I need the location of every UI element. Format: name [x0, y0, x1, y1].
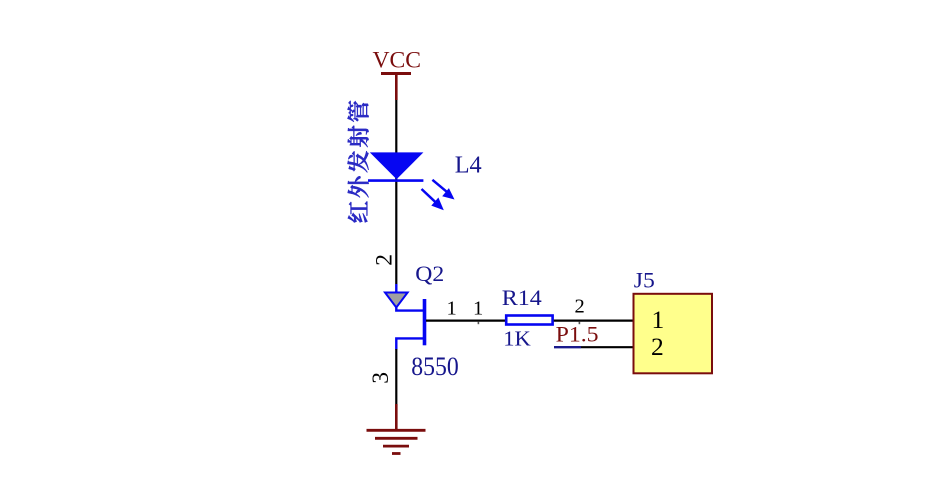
- svg-text:2: 2: [371, 254, 397, 266]
- LED L4 anode triangle: [370, 152, 424, 179]
- resistor R14 body: [506, 316, 552, 325]
- wire Q2 collector to ground: [395, 349, 397, 405]
- resistor R14 designator: [502, 285, 542, 310]
- svg-text:L4: L4: [455, 152, 482, 179]
- svg-text:1: 1: [652, 305, 665, 334]
- connector J5 designator: [634, 268, 655, 293]
- resistor R14 value 1K: [503, 326, 531, 350]
- svg-text:8550: 8550: [411, 351, 459, 381]
- LED L4 cathode bar: [368, 179, 423, 182]
- junction tick R14 pin2: [579, 322, 581, 325]
- transistor Q2 base bar: [423, 299, 427, 345]
- svg-text:3: 3: [368, 372, 394, 384]
- junction tick R14 pin1: [478, 322, 480, 325]
- svg-text:VCC: VCC: [373, 48, 422, 73]
- svg-text:J5: J5: [634, 268, 655, 293]
- wire Q2 base to resistor R14: [426, 320, 506, 322]
- ground symbol bar 2: [375, 437, 418, 440]
- power VCC bar symbol: [381, 72, 411, 75]
- pin number 1 of Q2 base: [447, 298, 457, 320]
- label 红外发射管 (infrared emitter tube, rotated): [348, 101, 369, 223]
- wire P1.5 to connector J5 pin 2: [581, 346, 634, 348]
- pin number 3 of Q2 (rotated): [368, 372, 394, 384]
- transistor Q2 emitter lead: [385, 284, 425, 311]
- pin number 2 of R14: [575, 296, 585, 318]
- transistor Q2 collector lead: [396, 338, 424, 349]
- LED emission arrow lower: [422, 189, 444, 210]
- svg-text:2: 2: [575, 296, 585, 318]
- label L4 (LED designator): [455, 152, 482, 179]
- transistor Q2 designator: [415, 261, 444, 286]
- ground symbol bar 4: [392, 452, 401, 455]
- svg-text:1: 1: [473, 298, 483, 320]
- wire VCC to Q2 emitter (through LED): [395, 100, 397, 284]
- svg-text:Q2: Q2: [415, 261, 444, 286]
- svg-text:P1.5: P1.5: [556, 322, 599, 347]
- power VCC stem: [395, 74, 398, 101]
- ground symbol bar 3: [383, 445, 409, 448]
- wire R14 to connector J5 pin 1: [554, 320, 634, 322]
- pin number 1 inside J5: [652, 305, 665, 334]
- pin number 2 inside J5: [651, 332, 664, 361]
- transistor Q2 value 8550: [411, 351, 459, 381]
- net wire segment (blue) under P1.5: [554, 346, 581, 348]
- ground symbol stem: [395, 404, 398, 430]
- connector J5 body: [634, 294, 713, 374]
- LED emission arrow upper: [432, 180, 454, 200]
- svg-text:R14: R14: [502, 285, 542, 310]
- power VCC label: [373, 48, 422, 73]
- svg-text:1K: 1K: [503, 326, 531, 350]
- svg-text:1: 1: [447, 298, 457, 320]
- pin number 1 of R14: [473, 298, 483, 320]
- ground symbol bar 1: [367, 429, 426, 432]
- net label P1.5: [556, 322, 599, 347]
- svg-text:2: 2: [651, 332, 664, 361]
- pin number 2 of Q2 (rotated): [371, 254, 397, 266]
